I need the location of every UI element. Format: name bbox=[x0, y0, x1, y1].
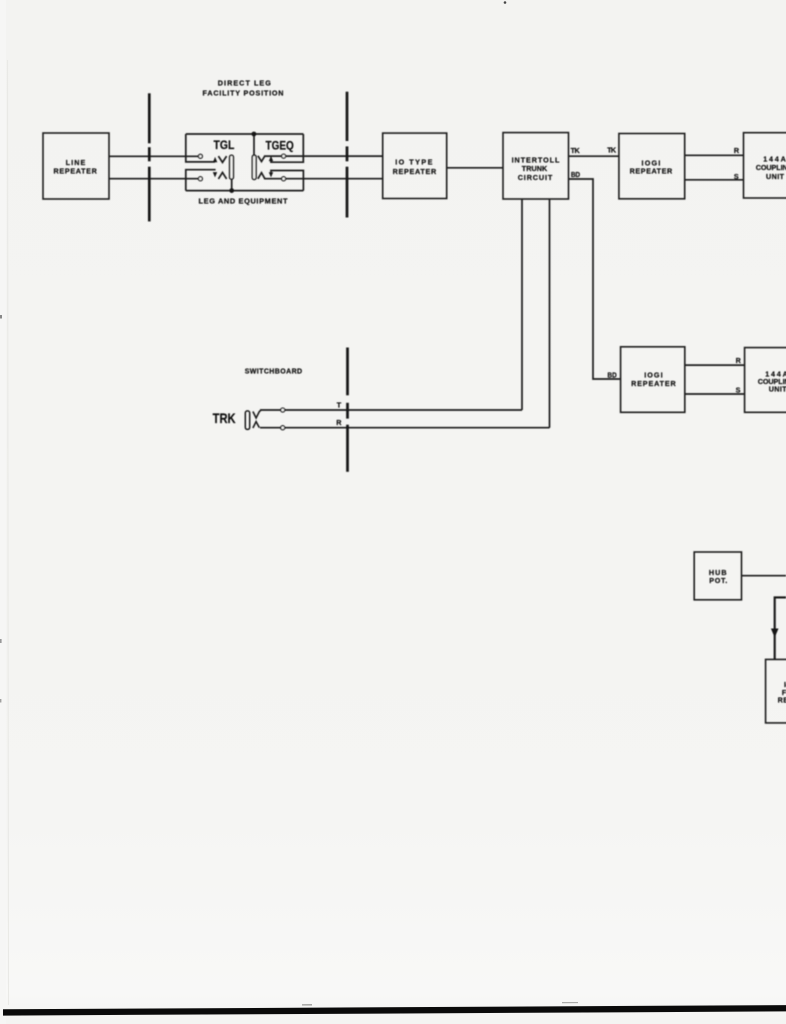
svg-text:REPEATER: REPEATER bbox=[393, 167, 437, 176]
svg-text:BD: BD bbox=[608, 371, 617, 380]
svg-text:UNIT: UNIT bbox=[769, 384, 786, 393]
svg-text:S: S bbox=[734, 172, 739, 181]
svg-text:R: R bbox=[336, 418, 342, 427]
svg-text:LEG AND EQUIPMENT: LEG AND EQUIPMENT bbox=[199, 196, 288, 205]
svg-text:FACILITY POSITION: FACILITY POSITION bbox=[203, 88, 284, 97]
svg-text:IO TYPE: IO TYPE bbox=[395, 158, 432, 167]
svg-text:TGL: TGL bbox=[214, 138, 235, 152]
svg-text:REPEATER: REPEATER bbox=[54, 167, 98, 176]
svg-text:TK: TK bbox=[571, 146, 581, 155]
svg-text:T: T bbox=[337, 400, 342, 409]
svg-text:TGEQ: TGEQ bbox=[266, 139, 294, 153]
svg-text:SWITCHBOARD: SWITCHBOARD bbox=[245, 369, 302, 376]
svg-text:BD: BD bbox=[571, 170, 580, 179]
svg-text:POT.: POT. bbox=[709, 576, 727, 585]
svg-text:REPEATER: REPEATER bbox=[630, 167, 673, 176]
svg-text:REPEATER: REPEATER bbox=[631, 379, 676, 388]
svg-text:TRUNK: TRUNK bbox=[522, 164, 548, 173]
svg-text:R: R bbox=[734, 146, 740, 155]
svg-text:UNIT: UNIT bbox=[766, 172, 785, 181]
svg-text:REPEATER: REPEATER bbox=[778, 696, 786, 705]
svg-text:TRK: TRK bbox=[213, 410, 236, 426]
svg-text:TK: TK bbox=[607, 146, 617, 155]
svg-text:DIRECT LEG: DIRECT LEG bbox=[218, 79, 272, 88]
svg-text:COUPLING: COUPLING bbox=[756, 163, 786, 172]
svg-text:S: S bbox=[736, 386, 741, 395]
svg-text:CIRCUIT: CIRCUIT bbox=[518, 173, 553, 182]
svg-text:R: R bbox=[736, 356, 742, 365]
